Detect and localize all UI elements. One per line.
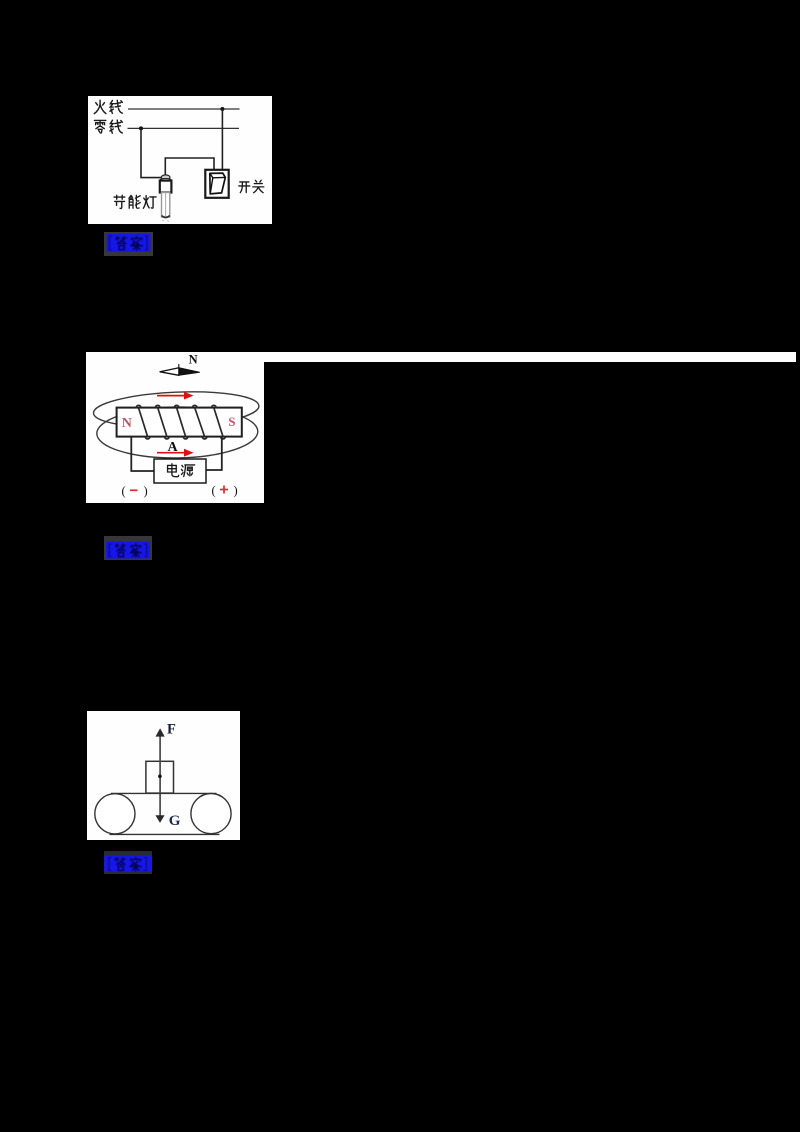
compass label N [189,353,198,367]
glyph definitions for Chinese characters [0,0,1,1]
label 开关 (switch) [239,180,264,192]
svg-text:): ) [234,484,238,498]
lamp cap ellipse [161,175,170,180]
answer text 1 【答案】 highlighted blue [104,232,153,257]
label 零线 (neutral wire) [94,120,122,133]
compass needle [160,368,200,376]
wire from lamp top to switch [165,158,214,175]
label 电源 (power supply) [168,464,195,477]
wire from live wire down to switch [221,109,223,170]
label 火线 (live wire) [94,100,122,113]
weight label G [169,813,181,829]
center of gravity dot [158,775,162,779]
block on plank [146,761,174,793]
compass pivot tick [178,364,180,368]
red arrow below (current direction) [157,449,194,457]
plank top line [111,792,217,794]
neutral wire line [128,127,240,129]
svg-text:S: S [228,414,235,429]
svg-text:F: F [167,722,176,738]
svg-text:(: ( [122,484,126,498]
lamp collar [160,179,171,182]
energy saving lamp body [160,181,172,193]
left lead wire to battery [131,437,154,471]
coil winding turns [136,405,225,439]
label ( + ) [212,484,238,498]
junction on live wire [220,107,224,111]
red arrow on upper field line [157,392,194,400]
pole label S (red) [228,414,235,429]
upper magnetic field line ellipse [93,389,260,431]
down arrowhead G [155,815,164,823]
live wire line [128,108,240,110]
right roller [191,794,231,834]
switch rocker symbol [210,173,226,194]
force label F [167,722,176,738]
right lead wire to battery [206,437,222,470]
battery box 电源 [154,459,206,483]
ground line [110,833,220,835]
pole label N (red) [122,416,132,431]
panel 2 top white strip extending right [264,352,796,362]
svg-text:): ) [144,484,148,498]
answer box 2 [104,536,152,560]
left roller [95,794,135,834]
label 节能灯 (energy saving lamp) [114,195,156,208]
label A [168,440,179,455]
answer box 1 [104,232,153,257]
svg-text:G: G [169,813,181,829]
solenoid core bar [117,408,242,437]
wire from neutral wire down to lamp [141,128,162,177]
svg-text:N: N [122,416,132,431]
answer text 3 【答案】 highlighted blue [104,851,152,874]
panel 1 white background [88,96,272,224]
svg-text:(: ( [212,484,216,498]
lamp tube [162,193,170,222]
answer text 2 【答案】 highlighted blue [104,536,152,560]
lower magnetic field line ellipse [96,406,258,459]
answer box 3 [104,851,152,874]
switch box [205,170,228,198]
label ( - ) [122,484,148,498]
force arrow line [159,733,161,817]
panel 2 white background [86,352,264,503]
panel 3 white background [87,711,240,840]
junction on neutral wire [139,126,143,130]
svg-text:N: N [189,353,198,367]
up arrowhead F [156,728,165,736]
